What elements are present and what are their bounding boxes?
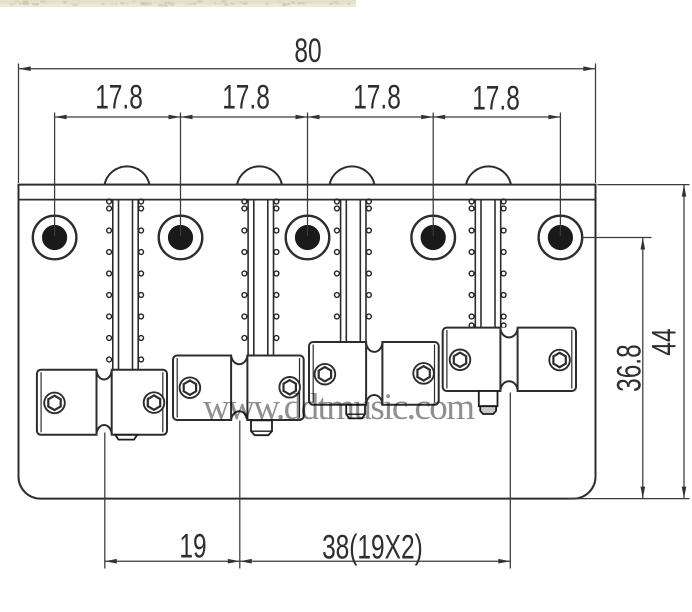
- svg-text:17.8: 17.8: [95, 78, 143, 116]
- saddle 1 right barrel block: [112, 370, 167, 435]
- saddle channel rails unit 1: [113, 200, 138, 370]
- saddle 3 string groove waist: [366, 342, 382, 352]
- string anchor hole 3: [286, 216, 330, 260]
- dimension 44: overall depth: [568, 185, 690, 499]
- saddle 4 right barrel block: [518, 328, 576, 391]
- svg-text:17.8: 17.8: [353, 78, 401, 116]
- dimensions 17.8: string spacing: [55, 78, 561, 236]
- string anchor hole 2: [159, 216, 203, 260]
- svg-text:38(19X2): 38(19X2): [322, 529, 423, 567]
- bridge base plate outline: [19, 185, 596, 499]
- dimension 36.8: hole center to plate bottom: [581, 238, 652, 499]
- top beige scan artifact band: [0, 0, 356, 7]
- saddle 3 left barrel block: [309, 342, 366, 405]
- saddle 2 right hex set screw: [279, 377, 300, 398]
- saddle 4 intonation screw shaft below block: [479, 391, 498, 406]
- saddle 1 left hex set screw: [44, 393, 65, 414]
- saddle 4 string groove waist: [500, 328, 517, 338]
- string anchor hole 4: [411, 216, 455, 260]
- saddle 3 height screw tip below block: [346, 405, 365, 419]
- saddle 2 left barrel block: [173, 356, 231, 421]
- adjustment hole dots unit 4: [469, 199, 506, 328]
- saddle 2 height screw tip below block: [251, 420, 272, 435]
- saddle 1 string groove waist: [97, 370, 112, 380]
- svg-text:17.8: 17.8: [472, 79, 520, 117]
- plate front lip fold line: [19, 199, 596, 201]
- string anchor hole 5: [539, 216, 583, 260]
- svg-text:44: 44: [645, 328, 683, 355]
- saddle 3 right barrel block: [382, 342, 438, 405]
- svg-text:80: 80: [294, 32, 321, 70]
- adjustment hole dots unit 3: [335, 199, 372, 319]
- svg-text:17.8: 17.8: [222, 78, 270, 116]
- saddle 2 string groove waist: [231, 356, 247, 365]
- adjustment hole dots unit 2: [242, 199, 279, 340]
- svg-text:www.ddtmusic.com: www.ddtmusic.com: [203, 387, 475, 428]
- saddle 2 right barrel block: [247, 356, 303, 421]
- dimension 80: overall width: [19, 32, 596, 183]
- saddle channel rails unit 3: [341, 200, 366, 342]
- string anchor hole 1: [33, 216, 77, 260]
- dimension 19: saddle 1-2 spacing: [105, 421, 240, 569]
- saddle 1 height screw tip below block: [115, 435, 137, 440]
- saddle channel rails unit 4: [475, 200, 500, 328]
- saddle 1 left barrel block: [37, 370, 97, 435]
- svg-text:19: 19: [179, 528, 206, 566]
- saddle 3 left hex set screw: [315, 364, 336, 385]
- dimension 38(19X2): saddle 2-4 spacing: [240, 393, 511, 569]
- saddle 1 right hex set screw: [144, 392, 165, 413]
- svg-text:36.8: 36.8: [610, 344, 648, 392]
- saddle 4 right hex set screw: [549, 350, 570, 371]
- saddle 2 left hex set screw: [180, 377, 201, 398]
- adjustment hole dots unit 1: [107, 199, 144, 362]
- saddle 3 right hex set screw: [413, 363, 434, 384]
- saddle channel rails unit 2: [248, 200, 273, 356]
- saddle-screw bosses (4 semicircular bumps) on plate top edge: [105, 166, 150, 184]
- saddle 4 left hex set screw: [450, 350, 471, 371]
- saddle 4 left barrel block: [443, 328, 501, 391]
